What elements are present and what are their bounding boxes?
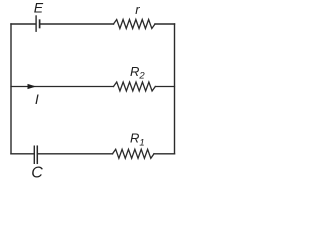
wire bottom-right segment [154,153,175,155]
wire left vertical [10,24,12,154]
wire middle branch right [155,86,174,88]
battery E [36,16,40,31]
wire bottom-left segment [11,153,33,155]
wire top-right segment [155,23,175,25]
wire top-left segment [11,23,35,25]
svg-text:C: C [31,165,43,182]
current arrow on middle wire [28,84,37,89]
wire top middle segment [40,23,113,25]
capacitor C [34,146,37,163]
wire middle branch left [11,86,114,88]
svg-text:I: I [35,91,39,107]
wire right vertical [174,24,176,154]
resistor r [114,20,156,29]
svg-text:r: r [135,2,140,17]
wire bottom middle segment [38,153,113,155]
svg-text:E: E [34,0,44,16]
resistor R1 [113,149,155,158]
resistor R2 [114,82,156,91]
